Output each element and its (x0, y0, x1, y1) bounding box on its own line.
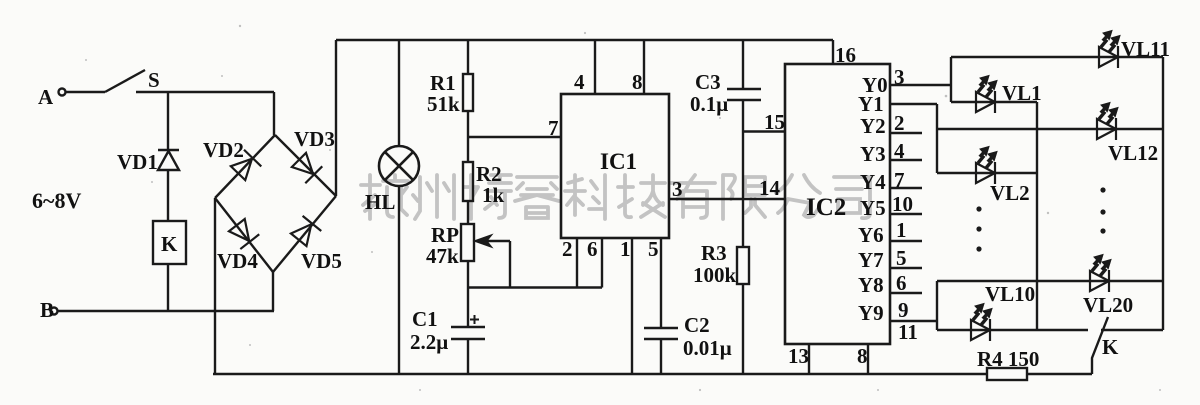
wire VL11 row (951, 56, 1163, 58)
svg-text:7: 7 (548, 116, 559, 140)
wire node to IC1 pins 2 6 (468, 286, 602, 288)
node A terminal (59, 89, 66, 96)
svg-text:0.1μ: 0.1μ (690, 92, 728, 116)
svg-text:Y5: Y5 (860, 196, 886, 220)
wire Y9 riser (936, 281, 938, 330)
wire R3 to bottom rail (742, 284, 744, 374)
wire VD1 to K (167, 170, 169, 221)
svg-text:VD2: VD2 (203, 138, 244, 162)
svg-text:10: 10 (892, 192, 913, 216)
wire R4 to switch K (1027, 373, 1092, 375)
svg-text:1: 1 (620, 237, 631, 261)
diode VD2 (229, 150, 261, 182)
wire Y1 riser (936, 104, 938, 173)
svg-text:Y8: Y8 (858, 273, 884, 297)
LED VL1 (976, 76, 997, 114)
svg-text:VL11: VL11 (1121, 37, 1170, 61)
IC2 Y5 wire (890, 213, 922, 215)
IC1 pin 4 wire (594, 40, 596, 94)
svg-text:Y1: Y1 (858, 92, 884, 116)
lamp HL wire lower (398, 186, 400, 374)
svg-text:16: 16 (835, 43, 856, 67)
svg-text:C2: C2 (684, 313, 710, 337)
svg-text:VL10: VL10 (985, 282, 1035, 306)
svg-text:4: 4 (574, 70, 585, 94)
svg-text:15: 15 (764, 110, 785, 134)
potentiometer RP (461, 224, 474, 261)
svg-text:7: 7 (894, 168, 905, 192)
svg-text:IC2: IC2 (806, 194, 846, 221)
svg-text:VL12: VL12 (1108, 141, 1158, 165)
wire B rail (58, 310, 274, 312)
resistor R3 (737, 247, 749, 284)
svg-text:8: 8 (632, 70, 643, 94)
switch S (66, 91, 105, 93)
IC1 pin 8 wire (643, 40, 645, 94)
svg-text:8: 8 (857, 344, 868, 368)
svg-text:VD1: VD1 (117, 150, 158, 174)
IC2 Y6 wire (890, 240, 922, 242)
IC2 Y8 wire (890, 292, 922, 294)
diode VD1 (158, 150, 179, 170)
svg-text:C3: C3 (695, 70, 721, 94)
svg-text:2: 2 (894, 111, 905, 135)
wire VL1 row (951, 101, 1037, 103)
svg-text:VL20: VL20 (1083, 293, 1133, 317)
IC1 box (561, 94, 669, 238)
IC1 pin 1 wire (631, 238, 633, 374)
svg-text:13: 13 (788, 344, 809, 368)
wire IC2 pin 15 (743, 130, 785, 132)
svg-text:VD3: VD3 (294, 127, 335, 151)
svg-text:Y9: Y9 (858, 301, 884, 325)
diode VD3 (290, 151, 322, 183)
wire bottom vertex drop (272, 272, 274, 311)
svg-text:3: 3 (672, 177, 683, 201)
wire C1 to bottom rail (467, 339, 469, 374)
wire bridge edge left-bottom (215, 198, 273, 272)
IC2 Y3 wire (890, 159, 922, 161)
wire RP wiper drop (509, 241, 511, 288)
wire VL2 row (937, 172, 1037, 174)
wire top vertex drop (273, 92, 275, 135)
capacitor C3 wire top (742, 40, 744, 89)
IC2 Y2 wire (890, 132, 922, 134)
LED VL11 (1099, 31, 1120, 69)
IC1 pin 5 wire (660, 238, 662, 328)
wire VL20 row (937, 280, 1163, 282)
lamp HL wire upper (398, 40, 400, 146)
svg-text:14: 14 (759, 176, 781, 200)
diode VD4 (227, 218, 259, 249)
svg-text:C1: C1 (412, 307, 438, 331)
svg-text:Y7: Y7 (858, 248, 884, 272)
svg-text:R4 150: R4 150 (977, 347, 1039, 371)
svg-text:6: 6 (896, 271, 907, 295)
wire bridge edge left-top (215, 135, 275, 198)
wire right cathode rail (1162, 57, 1164, 330)
svg-text:Y3: Y3 (860, 142, 886, 166)
lamp HL (379, 146, 419, 186)
svg-text:47k: 47k (426, 244, 459, 268)
wire RP bottom node (467, 261, 469, 327)
wire VD1 branch (167, 92, 169, 150)
svg-text:Y2: Y2 (860, 114, 886, 138)
svg-text:6: 6 (587, 237, 598, 261)
svg-text:11: 11 (898, 320, 918, 344)
resistor R1 (463, 74, 473, 111)
IC2 Y0 wire pin 3 (890, 84, 951, 86)
capacitor C3 (727, 89, 761, 100)
svg-text:9: 9 (898, 298, 909, 322)
resistor R2 (463, 162, 473, 201)
wire VL10 row right of switch (1101, 329, 1163, 331)
wire bottom rail (213, 373, 987, 375)
capacitor C2 (644, 328, 678, 339)
watermark 杭州将睿科技有限公司 (361, 175, 870, 219)
wire Y0 riser (950, 57, 952, 102)
svg-text:Y6: Y6 (858, 223, 884, 247)
IC1 pin 6 wire (601, 238, 603, 288)
svg-text:2.2μ: 2.2μ (410, 330, 448, 354)
svg-text:VD4: VD4 (217, 249, 258, 273)
dots right column (1100, 187, 1105, 233)
svg-text:5: 5 (648, 237, 659, 261)
svg-text:VL1: VL1 (1002, 81, 1042, 105)
svg-text:6~8V: 6~8V (32, 188, 81, 213)
LED VL10 (971, 304, 992, 342)
svg-text:100k: 100k (693, 263, 737, 287)
wire bridge left vertex to bottom rail (214, 198, 216, 374)
wire left cathode rail (1036, 102, 1038, 330)
svg-text:S: S (148, 68, 160, 92)
svg-text:IC1: IC1 (600, 149, 637, 174)
wire pin7 IC1 (468, 136, 561, 138)
wire C3 down through R3 (742, 100, 744, 247)
svg-text:1: 1 (896, 218, 907, 242)
svg-text:HL: HL (365, 190, 395, 214)
potentiometer RP wiper arrow (476, 236, 510, 246)
wire bridge edge top-right (275, 135, 336, 196)
LED VL12 (1097, 103, 1118, 141)
resistor R4 (987, 368, 1027, 380)
svg-text:2: 2 (562, 237, 573, 261)
LED VL2 (976, 147, 997, 185)
IC2 Y4 wire (890, 187, 922, 189)
IC2 pin 16 wire (832, 40, 834, 64)
svg-text:51k: 51k (427, 92, 460, 116)
wire VL12 row (937, 128, 1163, 130)
wire K to B rail (167, 264, 169, 311)
svg-text:B: B (40, 298, 54, 322)
svg-text:R3: R3 (701, 241, 727, 265)
svg-text:K: K (161, 232, 178, 256)
IC2 Y1 wire pin 2 (890, 103, 937, 105)
IC2 pin 13 wire (808, 344, 810, 374)
wire R2 to RP (467, 201, 469, 224)
wire R1 to R2 (467, 111, 469, 162)
svg-text:Y4: Y4 (860, 170, 886, 194)
svg-text:VL2: VL2 (990, 181, 1030, 205)
svg-text:5: 5 (896, 246, 907, 270)
relay K (153, 221, 186, 264)
IC2 box (785, 64, 890, 344)
svg-text:K: K (1102, 335, 1119, 359)
svg-text:VD5: VD5 (301, 249, 342, 273)
IC1 pin 2 wire (576, 238, 578, 288)
IC1 pin 3 wire to IC2 pin 14 (669, 198, 785, 200)
svg-text:A: A (38, 85, 54, 109)
svg-text:1k: 1k (482, 183, 505, 207)
svg-text:4: 4 (894, 139, 905, 163)
wire top rail (336, 39, 833, 41)
node B terminal (51, 308, 58, 315)
wire C2 to bottom rail (660, 339, 662, 374)
svg-text:0.01μ: 0.01μ (683, 336, 732, 360)
switch K blade (1092, 317, 1108, 374)
capacitor C1 (451, 315, 485, 339)
wire VL10 row (937, 329, 1088, 331)
IC2 Y7 wire (890, 267, 922, 269)
IC2 Y9 wire (890, 320, 937, 322)
dots left column (976, 206, 981, 251)
LED VL20 (1090, 255, 1111, 293)
diode VD5 (289, 216, 321, 247)
resistor chain top wire (467, 40, 469, 74)
wire bridge right vertex riser (335, 40, 337, 196)
IC2 pin 8 wire (867, 344, 869, 374)
svg-text:3: 3 (894, 65, 905, 89)
wire bridge edge bottom-right (273, 196, 336, 272)
